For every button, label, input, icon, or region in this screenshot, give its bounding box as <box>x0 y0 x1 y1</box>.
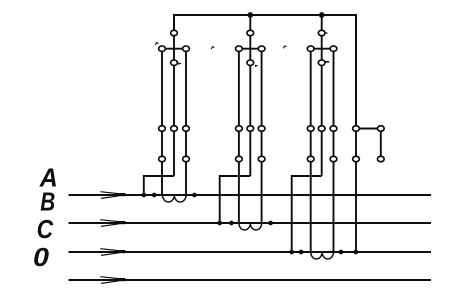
wire: group 3 cross bar <box>311 48 334 50</box>
terminal: group 1 row2 left <box>159 156 166 162</box>
terminal: group 1 cross left <box>159 46 166 52</box>
wire: group 2 right current lead <box>261 159 263 223</box>
wire: group 1 right current lead <box>185 159 187 195</box>
terminal: group 1 cross right <box>183 46 190 52</box>
terminal: group 3 top <box>318 30 325 36</box>
terminal: group 3 row1 right <box>330 126 337 132</box>
wire: group 1 centre column <box>173 15 175 63</box>
terminal: group 3 row1 left <box>307 126 314 132</box>
junction: group 3 phase-line dot 1 <box>289 250 294 255</box>
terminal: group 1 row1 centre <box>171 126 178 132</box>
mark left of group 3 <box>283 46 286 48</box>
wire: group 3 centre column <box>321 15 323 63</box>
wire: group 2 left column <box>238 49 240 159</box>
dash at group 3 lower terminal <box>325 61 329 63</box>
wire: group 1 left current lead <box>161 159 163 195</box>
svg-text:C: C <box>37 214 55 244</box>
wire: group 3 right column <box>333 49 335 159</box>
arrow: direction of phase C <box>100 249 125 256</box>
terminal: group 3 cross left <box>307 46 314 52</box>
mark near group 1 cross left terminal <box>155 43 158 45</box>
terminal: group 1 row2 right <box>183 156 190 162</box>
terminal: group 2 cross right <box>258 46 265 52</box>
wire: auxiliary column from bus <box>355 15 357 252</box>
wire: auxiliary right short column <box>380 129 382 160</box>
wire: group 3 left column <box>310 49 312 159</box>
wire: group 2 left current lead <box>238 159 240 223</box>
wire: group 3 right current lead <box>333 159 335 252</box>
terminal: group 3 row2 right <box>330 156 337 162</box>
wire: group 1 centre column lower <box>173 63 175 176</box>
terminal: group 1 row1 left <box>159 126 166 132</box>
svg-text:0: 0 <box>33 242 50 272</box>
wire: group 1 voltage tap jog <box>144 176 174 195</box>
terminal: group 2 below cross <box>247 60 254 65</box>
terminal: group 1 row1 right <box>183 126 190 132</box>
arrow: direction of phase 0 <box>100 277 125 284</box>
current coil: group 1 (arcs under phase line) <box>163 195 187 202</box>
junction: group 3 phase-line dot 3 <box>339 250 344 255</box>
junction: group 2 phase-line dot 2 <box>229 221 234 226</box>
tick at group 3 top terminal <box>326 32 328 35</box>
terminal: group 2 top <box>247 30 254 36</box>
terminal: group 3 cross right <box>330 46 337 52</box>
mark left of group 2 <box>211 47 214 49</box>
arrow: direction of phase A <box>100 192 125 199</box>
junction: group 1 phase-line dot 1 <box>141 193 146 198</box>
terminal: group 2 row2 right <box>258 156 265 162</box>
junction: group 1 phase-line dot 2 <box>152 193 157 198</box>
current coil: group 2 (arcs under phase line) <box>239 223 262 230</box>
terminal: auxiliary row1 left <box>353 126 360 132</box>
junction: group 3 phase-line dot 2 <box>299 250 304 255</box>
wire: top bus (voltage circuit common) <box>174 15 356 129</box>
terminal: group 2 row1 right <box>258 126 265 132</box>
adjusting arrow at group 2 lower terminal <box>255 65 258 67</box>
terminal: group 2 row1 left <box>236 126 243 132</box>
svg-text:B: B <box>40 187 55 217</box>
current coil: group 3 (arcs under phase line) <box>311 252 334 259</box>
junction: group 2 phase-line dot 1 <box>217 221 222 226</box>
arrow: direction of phase B <box>100 220 125 227</box>
terminal: group 3 row2 left <box>307 156 314 162</box>
wire: group 3 left current lead <box>310 159 312 252</box>
wire: phase line 0 <box>69 279 432 281</box>
junction on bus at group 3 <box>319 12 325 18</box>
adjusting arrow at group 1 lower terminal <box>178 62 182 65</box>
junction: auxiliary column on phase C <box>353 250 358 255</box>
wire: phase line C <box>69 251 432 253</box>
wire: group 3 centre column lower <box>321 63 323 176</box>
terminal: auxiliary row2 right <box>377 156 384 162</box>
terminal: auxiliary row2 left <box>353 156 360 162</box>
wire: group 1 left column <box>161 49 163 159</box>
terminal: auxiliary row1 right <box>377 126 384 132</box>
terminal: group 2 row2 left <box>236 156 243 162</box>
terminal: group 3 row1 centre <box>318 126 325 132</box>
wire: group 3 voltage tap jog <box>292 176 322 252</box>
terminal: group 2 row1 centre <box>247 126 254 132</box>
wire: group 2 centre column lower <box>249 63 251 176</box>
wire: group 2 centre column <box>249 15 251 63</box>
wire: group 2 cross bar <box>239 48 262 50</box>
terminal: group 1 top <box>171 30 178 36</box>
wire: phase line B <box>69 222 432 224</box>
wire: group 1 cross bar <box>162 48 186 50</box>
wire: phase line A <box>69 194 432 196</box>
junction: group 1 phase-line dot 3 <box>192 193 197 198</box>
terminal: group 3 below cross <box>318 60 325 65</box>
wire: group 2 voltage tap jog <box>220 176 251 223</box>
wire: auxiliary link bar <box>356 128 381 130</box>
terminal: group 1 below cross <box>171 60 178 65</box>
junction on bus at group 2 <box>247 12 253 18</box>
terminal: group 2 cross left <box>236 46 243 52</box>
wire: group 2 right column <box>261 49 263 159</box>
junction: group 2 phase-line dot 3 <box>268 221 273 226</box>
wire: group 1 right column <box>185 49 187 159</box>
